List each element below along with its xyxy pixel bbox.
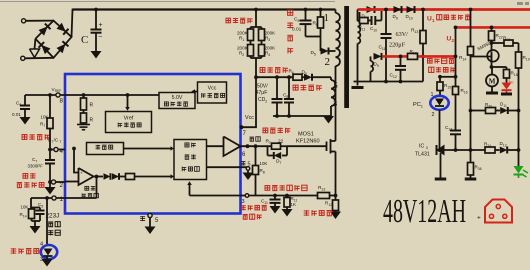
svg-text:22: 22 bbox=[278, 139, 284, 145]
TL431 IC3 bbox=[415, 144, 445, 158]
svg-text:6: 6 bbox=[19, 103, 21, 107]
svg-text:6: 6 bbox=[305, 72, 307, 76]
svg-text:5: 5 bbox=[334, 80, 338, 90]
row R20 D11 bbox=[471, 102, 519, 115]
charge LED (red) bbox=[501, 78, 514, 94]
svg-text:9: 9 bbox=[377, 64, 379, 68]
aux ground arrow bbox=[323, 116, 334, 124]
svg-text:2: 2 bbox=[325, 56, 331, 68]
svg-text:R: R bbox=[90, 103, 94, 109]
Vref UVLO box bbox=[106, 112, 152, 133]
top border faint line bbox=[0, 1, 335, 3]
voltage feedback label (red) bbox=[11, 248, 39, 254]
svg-text:2: 2 bbox=[265, 99, 267, 103]
svg-text:220μF: 220μF bbox=[389, 42, 406, 49]
svg-text:48V12AH: 48V12AH bbox=[383, 193, 466, 230]
working supply label (red) bbox=[260, 67, 288, 73]
transistor SM350 bbox=[471, 40, 499, 61]
compensation ground arrow bbox=[30, 226, 41, 234]
svg-text:REF: REF bbox=[55, 89, 61, 93]
comp cap C13 bbox=[445, 125, 461, 150]
opto pin2 to TL431 node bbox=[439, 110, 441, 150]
compensation C5 223J bbox=[31, 202, 45, 221]
5.0V reference box bbox=[159, 93, 195, 109]
svg-text:C: C bbox=[81, 34, 88, 46]
main filter cap C11 63V/220uF bbox=[379, 8, 409, 84]
svg-text:5.0V: 5.0V bbox=[172, 95, 183, 101]
svg-text:−: − bbox=[98, 34, 102, 41]
svg-text:24: 24 bbox=[487, 144, 491, 148]
PWM bottom input arrow bbox=[189, 185, 191, 196]
rectifier D8 bbox=[358, 6, 375, 20]
res R15 bbox=[437, 77, 451, 96]
svg-text:0.01: 0.01 bbox=[12, 112, 21, 117]
svg-text:5: 5 bbox=[41, 204, 43, 208]
optocoupler PC1 LED (blue) bbox=[413, 92, 449, 118]
svg-text:10K: 10K bbox=[21, 205, 29, 210]
bridge rectifier BR1 bbox=[35, 21, 71, 58]
aux rail (red) to U2 bbox=[382, 55, 456, 58]
internal divider ground bbox=[77, 124, 90, 126]
svg-text:2: 2 bbox=[242, 53, 244, 57]
arrow into Vref UVLO bbox=[126, 93, 130, 97]
IC U1 UC3842 internal block (blue box) bbox=[65, 74, 241, 214]
res R22 bbox=[489, 26, 503, 51]
svg-text:11: 11 bbox=[264, 201, 268, 205]
damped oscillation label (red) bbox=[263, 128, 290, 133]
svg-text:13: 13 bbox=[321, 187, 325, 191]
capacitor C8 bbox=[283, 75, 294, 116]
svg-text:3: 3 bbox=[268, 38, 270, 42]
res R18 bbox=[492, 67, 518, 83]
capacitor C9 0.01 bbox=[292, 8, 312, 37]
svg-text:1: 1 bbox=[431, 92, 434, 98]
svg-text:4: 4 bbox=[268, 53, 270, 57]
pin 4 Rt/Ct bbox=[48, 138, 65, 156]
current sample label (red) bbox=[304, 210, 332, 216]
filter cap C11 bbox=[261, 194, 281, 214]
svg-text:63V/: 63V/ bbox=[396, 31, 409, 38]
wire to PWM with arrow bbox=[135, 176, 171, 178]
svg-text:12: 12 bbox=[393, 75, 397, 79]
series res R13 bbox=[318, 185, 336, 199]
svg-text:7: 7 bbox=[43, 124, 45, 128]
resistor R4 200K bbox=[259, 41, 277, 59]
wire ladder down to Vcc rail bbox=[255, 58, 257, 77]
emitter node bbox=[491, 62, 493, 68]
svg-text:1K: 1K bbox=[291, 202, 296, 207]
optocoupler PC1 phototransistor (blue) bbox=[40, 196, 57, 266]
svg-text:5: 5 bbox=[316, 23, 318, 27]
svg-text:8: 8 bbox=[60, 98, 64, 105]
timing resistor label (red) bbox=[22, 134, 50, 140]
svg-text:10: 10 bbox=[409, 16, 413, 20]
VFB ground arrow bbox=[45, 187, 56, 195]
pin 3 CS row bbox=[190, 194, 318, 205]
svg-text:7: 7 bbox=[279, 161, 281, 165]
Vcc UVLO box bbox=[198, 82, 227, 103]
internal divider R lower bbox=[81, 110, 94, 125]
gate wire bbox=[287, 145, 327, 147]
error amplifier bbox=[79, 168, 94, 185]
rectifier D10 bbox=[406, 6, 415, 20]
svg-text:13: 13 bbox=[448, 127, 452, 131]
resistor R1 200K bbox=[237, 27, 254, 42]
filter res R11 1K bbox=[282, 194, 298, 217]
svg-text:8: 8 bbox=[286, 95, 288, 99]
resistor R2 200K bbox=[237, 41, 254, 59]
aux winding pins 5-3 bbox=[331, 77, 338, 116]
Vcc wire to pin7 bbox=[242, 77, 257, 127]
svg-text:0.01: 0.01 bbox=[292, 27, 302, 33]
svg-text:Vcc: Vcc bbox=[245, 115, 254, 121]
wire primary to MOSFET drain bbox=[335, 66, 337, 140]
capacitor C6 0.01 bbox=[12, 95, 31, 125]
snubber R11 C10 bbox=[359, 11, 382, 32]
resistor R3 200K bbox=[259, 27, 277, 42]
svg-text:11: 11 bbox=[382, 47, 386, 51]
svg-text:/C: /C bbox=[54, 138, 59, 143]
common ground bbox=[357, 82, 359, 86]
timing capacitor C7 3300PF bbox=[28, 148, 56, 182]
ladder top/bottom ties bbox=[251, 26, 262, 28]
svg-text:PC: PC bbox=[413, 102, 421, 108]
rectifier D9b bbox=[374, 53, 382, 68]
secondary main winding bbox=[358, 10, 361, 82]
svg-text:5: 5 bbox=[248, 162, 251, 168]
svg-text:1: 1 bbox=[242, 38, 244, 42]
svg-text:Vcc: Vcc bbox=[208, 86, 217, 92]
top DC rail bbox=[73, 8, 336, 10]
spike pulse suppress label (red) bbox=[265, 185, 307, 190]
pin 5 GND bottom bbox=[140, 213, 159, 234]
svg-text:14: 14 bbox=[462, 57, 466, 61]
svg-text:3: 3 bbox=[333, 98, 337, 108]
svg-text:12: 12 bbox=[328, 203, 332, 207]
resistor R6 bbox=[289, 69, 303, 81]
res R16 bbox=[453, 87, 468, 95]
pin 7 Vcc bbox=[240, 125, 244, 129]
wire from rail to ladder bbox=[255, 10, 257, 28]
svg-text:12: 12 bbox=[503, 143, 507, 147]
svg-text:5: 5 bbox=[314, 52, 316, 56]
Vcc rail node bbox=[256, 76, 293, 78]
charging socket (red) bbox=[485, 200, 512, 223]
electrolytic cap CD2 50V/47uF bbox=[256, 75, 283, 116]
CS input label (red) bbox=[241, 205, 267, 210]
svg-text:3: 3 bbox=[242, 199, 245, 205]
primary coil bbox=[336, 10, 340, 67]
resistor R5 bbox=[313, 8, 324, 28]
svg-text:6: 6 bbox=[292, 71, 294, 75]
internal Vref bus bbox=[65, 94, 159, 96]
svg-text:15: 15 bbox=[447, 85, 451, 89]
svg-text:11: 11 bbox=[362, 27, 366, 31]
timing resistor RT 10K bbox=[40, 93, 53, 149]
compensation R14 10K bbox=[20, 198, 35, 221]
svg-text:1: 1 bbox=[60, 196, 64, 203]
svg-text:10K: 10K bbox=[41, 115, 49, 120]
arrow Vcc box to 5.0V box bbox=[195, 91, 198, 93]
res R17 row bbox=[490, 36, 519, 47]
svg-text:KF12N60: KF12N60 bbox=[296, 139, 320, 145]
spike absorb label 2 (red) bbox=[293, 85, 322, 91]
pin 8 Vref bbox=[25, 87, 65, 105]
spike absorb label vertical (red) bbox=[287, 10, 293, 53]
svg-text:+: + bbox=[477, 215, 481, 222]
oscillator box bbox=[87, 143, 124, 155]
transformer core bbox=[344, 6, 349, 108]
svg-text:18: 18 bbox=[514, 73, 518, 77]
pin 2 VFB bbox=[48, 180, 65, 189]
svg-text:R: R bbox=[90, 118, 94, 124]
wire bridge + to top rail bbox=[72, 10, 74, 37]
AC input terminal bottom bbox=[25, 57, 54, 60]
svg-text:2: 2 bbox=[432, 112, 435, 118]
main charge rail U1 (red) bbox=[358, 8, 530, 11]
status LED (green) bbox=[514, 150, 529, 178]
snubber bottom tie bbox=[306, 36, 321, 38]
TL431 anode ground bbox=[440, 153, 442, 178]
err amp + input feed bbox=[72, 147, 76, 151]
svg-text:MOS1: MOS1 bbox=[298, 132, 314, 138]
svg-text:9: 9 bbox=[297, 19, 299, 23]
oscillator to PWM arrow bbox=[124, 148, 171, 150]
pin 1 COMP bbox=[31, 196, 65, 203]
svg-text:19: 19 bbox=[526, 57, 530, 61]
branch to opto bbox=[440, 76, 456, 78]
svg-text:13: 13 bbox=[414, 30, 418, 34]
COMP node riser bbox=[95, 175, 99, 179]
svg-text:36: 36 bbox=[478, 167, 482, 171]
svg-text:47μF: 47μF bbox=[256, 90, 268, 96]
rectifier D9 bbox=[393, 6, 402, 20]
svg-text:20: 20 bbox=[488, 104, 492, 108]
svg-text:7: 7 bbox=[269, 141, 271, 145]
svg-text:14: 14 bbox=[23, 214, 27, 218]
divider res R36 bbox=[465, 150, 482, 179]
svg-text:3300PF: 3300PF bbox=[28, 164, 44, 169]
PWM latch box bbox=[174, 140, 207, 180]
res R19 right bbox=[516, 43, 530, 152]
svg-text:3: 3 bbox=[426, 146, 428, 150]
output common rail bbox=[354, 81, 424, 83]
diode pair after err amp bbox=[94, 176, 104, 178]
U2 label (red) bbox=[447, 36, 455, 43]
svg-text:17: 17 bbox=[506, 38, 510, 42]
gate resistor R7 22 bbox=[266, 139, 288, 150]
diode D6 bbox=[302, 70, 332, 81]
pin 6 output bbox=[241, 137, 268, 158]
output buffer triangle bbox=[224, 137, 241, 157]
svg-text:IC: IC bbox=[419, 144, 424, 150]
U2 rail (red) bbox=[456, 26, 530, 29]
row R24 D12 bbox=[484, 141, 519, 154]
svg-text:16: 16 bbox=[464, 90, 468, 94]
svg-text:Vref: Vref bbox=[124, 116, 134, 122]
err amp - input from pin2 bbox=[65, 181, 79, 183]
U1 main charge supply label (red) bbox=[427, 15, 470, 23]
internal resistor bbox=[126, 174, 135, 180]
divider R13 top bbox=[411, 8, 426, 82]
svg-text:T: T bbox=[59, 140, 61, 144]
svg-text:10K: 10K bbox=[260, 161, 268, 166]
filter capacitor C bbox=[81, 8, 103, 59]
aux ground rail bbox=[273, 115, 331, 117]
rail res R12 bbox=[408, 49, 418, 59]
svg-text:M: M bbox=[489, 78, 496, 86]
svg-text:+: + bbox=[80, 171, 83, 176]
bypass diode D7 bbox=[268, 146, 288, 165]
secondary aux winding bbox=[371, 56, 374, 81]
sense vertical from rail1 bbox=[459, 8, 474, 150]
svg-text:4: 4 bbox=[60, 148, 64, 155]
pulldown R8 10K bbox=[253, 144, 268, 195]
internal divider R upper bbox=[81, 93, 94, 110]
svg-text:8: 8 bbox=[263, 170, 265, 174]
sense res R12 bbox=[325, 194, 341, 219]
feedback row bbox=[437, 148, 486, 152]
svg-text:2: 2 bbox=[60, 182, 64, 189]
internal gnd-5 stub bbox=[207, 161, 254, 180]
svg-text:12: 12 bbox=[413, 51, 417, 55]
aux filter C12 bbox=[390, 55, 407, 84]
svg-text:1: 1 bbox=[324, 12, 330, 24]
svg-text:9: 9 bbox=[396, 16, 398, 20]
svg-text:b: b bbox=[512, 80, 514, 84]
svg-text:10: 10 bbox=[373, 28, 377, 32]
svg-text:11: 11 bbox=[503, 104, 507, 108]
motor M bbox=[486, 67, 498, 93]
control loop supply label (red) bbox=[427, 58, 454, 63]
svg-text:+: + bbox=[99, 22, 103, 29]
svg-text:TL431: TL431 bbox=[415, 152, 430, 158]
bridge minus output arrow bbox=[30, 39, 40, 58]
watermark top-right bbox=[517, 2, 529, 5]
voltage feedback input label (red) bbox=[23, 173, 36, 178]
MOSFET MOS1 KF12N60 bbox=[296, 132, 336, 196]
AC input terminal top bbox=[26, 20, 54, 22]
startup resistor label (red) bbox=[226, 18, 253, 23]
diode D5 bbox=[311, 48, 336, 57]
U2 feed vertical bbox=[454, 26, 458, 131]
svg-text:50V/: 50V/ bbox=[257, 84, 268, 90]
